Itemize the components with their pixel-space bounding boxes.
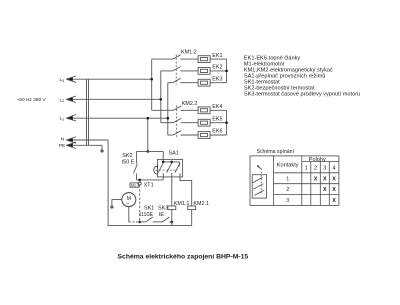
- wire SA1 internal bus: [163, 162, 179, 167]
- wire N down-right to bottom rail: [108, 140, 192, 226]
- svg-text:X: X: [332, 187, 336, 193]
- contactor KM2.2 contact 3: [168, 131, 199, 135]
- node N supply arrow: [66, 137, 108, 143]
- junction L3: [150, 78, 153, 81]
- svg-text:EK5: EK5: [212, 116, 222, 122]
- svg-text:KM2.1: KM2.1: [193, 201, 209, 207]
- heater EK6: [198, 132, 210, 139]
- svg-text:X: X: [332, 176, 336, 182]
- svg-text:SA1-přepínač provozních režimů: SA1-přepínač provozních režimů: [244, 73, 325, 80]
- svg-text:1: 1: [305, 165, 308, 171]
- switch SA1 box: [158, 159, 183, 177]
- coil KM1.1: [168, 173, 176, 226]
- contactor KM1.2 contact 2: [161, 67, 199, 71]
- svg-text:t110E: t110E: [139, 212, 153, 218]
- svg-text:~: ~: [126, 201, 129, 207]
- svg-text:SA1: SA1: [169, 151, 179, 157]
- svg-text:Kontakty: Kontakty: [277, 162, 299, 168]
- thermostat SK1: [140, 217, 163, 222]
- heater EK1: [198, 56, 210, 63]
- svg-text:XT1: XT1: [144, 182, 154, 188]
- wire XT1 to SK1 (dashed, in-motor): [139, 185, 141, 222]
- switch SA1 contact 1: [158, 162, 163, 180]
- svg-text:EK4: EK4: [212, 104, 222, 110]
- contactor KM2.2 contact 2: [161, 118, 199, 122]
- svg-text:L2: L2: [60, 97, 65, 103]
- ground terminal PE: [100, 149, 103, 152]
- svg-text:M1: M1: [131, 183, 136, 187]
- contactor KM1.2 contact 3: [168, 78, 199, 82]
- junction SA1 bus b: [170, 161, 173, 164]
- svg-text:SK3: SK3: [158, 205, 168, 211]
- svg-text:3: 3: [286, 198, 289, 204]
- svg-text:2: 2: [286, 187, 289, 193]
- junction L2: [160, 98, 163, 101]
- wire PE drop: [101, 145, 103, 149]
- svg-text:~50 Hz 380 V: ~50 Hz 380 V: [17, 97, 47, 103]
- wire L1 feeder vertical: [167, 83, 169, 135]
- svg-text:KM2.2: KM2.2: [182, 101, 198, 107]
- wire motor bottom: [128, 207, 130, 222]
- manual handle SA1: [154, 166, 157, 174]
- heater EK4: [198, 107, 210, 114]
- marks row 1: [314, 176, 337, 182]
- mechanical link KM1.2: [175, 54, 177, 84]
- svg-text:SK2: SK2: [122, 153, 132, 159]
- wire vertical pair from L3 down across N to PE: [87, 79, 89, 145]
- junction XT1 node: [138, 179, 141, 182]
- motor M1 terminal box label: [130, 183, 138, 187]
- svg-text:L1: L1: [60, 116, 65, 122]
- contactor KM2.2 contact 1: [152, 106, 199, 110]
- svg-text:EK6: EK6: [212, 129, 222, 135]
- wire EK1-EK3 star bus: [210, 59, 227, 83]
- wire EK4-EK6 star bus: [210, 110, 227, 135]
- svg-text:tE: tE: [159, 212, 164, 218]
- svg-text:KM1.1: KM1.1: [174, 201, 190, 207]
- svg-text:X: X: [332, 198, 336, 204]
- svg-text:PE: PE: [59, 143, 65, 149]
- mechanical link SA1: [155, 169, 176, 171]
- svg-text:L3: L3: [60, 77, 65, 83]
- svg-text:X: X: [323, 187, 327, 193]
- thermostat SK3: [162, 217, 171, 222]
- junction L1: [167, 117, 170, 120]
- coil KM2.1: [180, 173, 196, 226]
- junction bottom XT1: [138, 221, 141, 224]
- wire motor to XT1 rail (dashed): [129, 221, 140, 223]
- wire SA1 feed entry: [162, 151, 164, 162]
- wire SK2 bottom to SA1 contact1: [137, 179, 164, 181]
- terminal XT1: [138, 182, 141, 185]
- junction EK bus 1: [225, 70, 228, 73]
- svg-text:EK3: EK3: [212, 76, 222, 82]
- node L2 supply arrow: [66, 96, 161, 102]
- junction EK bus 2: [225, 121, 228, 124]
- wire feed to SK2 and SA1: [137, 150, 164, 152]
- ground terminal motor: [110, 205, 113, 208]
- svg-text:2: 2: [314, 165, 317, 171]
- mechanical link KM2.2: [176, 105, 178, 136]
- svg-text:Polohy: Polohy: [309, 157, 326, 163]
- svg-text:t50 E: t50 E: [122, 159, 135, 165]
- svg-text:3: 3: [323, 165, 326, 171]
- svg-text:EK1: EK1: [212, 53, 222, 59]
- svg-text:4: 4: [333, 165, 336, 171]
- legend text block: [244, 56, 360, 98]
- wire motor earth: [112, 200, 122, 206]
- wire L2 feeder vertical: [160, 71, 162, 123]
- svg-text:1: 1: [286, 176, 289, 182]
- thermostat SK2: [134, 151, 138, 180]
- wire L3 feeder vertical: [151, 59, 153, 110]
- switch SA1 contact 2: [167, 162, 172, 172]
- svg-text:KM1.2: KM1.2: [181, 49, 197, 55]
- svg-text:SK3-termostat časové prodlevy: SK3-termostat časové prodlevy vypnutí mo…: [244, 92, 360, 98]
- svg-text:N: N: [61, 136, 65, 142]
- heater EK5: [198, 119, 210, 126]
- wire control feed from L1: [147, 118, 149, 151]
- node L3 supply arrow: [66, 76, 151, 82]
- marks row 2: [323, 187, 336, 193]
- node PE supply arrow: [66, 142, 102, 148]
- heater EK3: [198, 79, 210, 86]
- heater EK2: [198, 68, 210, 75]
- contactor KM1.2 contact 1: [152, 55, 199, 59]
- svg-text:Schéma elektrického zapojení B: Schéma elektrického zapojení BHP-M-15: [118, 253, 249, 260]
- svg-text:Schéma spínání: Schéma spínání: [257, 149, 295, 155]
- marks row 3: [332, 198, 336, 204]
- switch SA1 contact 3: [175, 163, 180, 173]
- svg-text:SK1: SK1: [144, 205, 154, 211]
- node L1 supply arrow: [66, 115, 168, 121]
- table switching grid: [250, 156, 339, 206]
- node control feed junction: [147, 150, 150, 153]
- switch diagram in table: [252, 165, 266, 198]
- svg-text:X: X: [323, 176, 327, 182]
- junction control feed top: [147, 117, 150, 120]
- junction SA1 bus a: [162, 161, 165, 164]
- svg-text:EK2: EK2: [212, 65, 222, 71]
- junction coil rail: [171, 221, 174, 224]
- svg-text:X: X: [314, 176, 318, 182]
- motor M1: [122, 193, 136, 207]
